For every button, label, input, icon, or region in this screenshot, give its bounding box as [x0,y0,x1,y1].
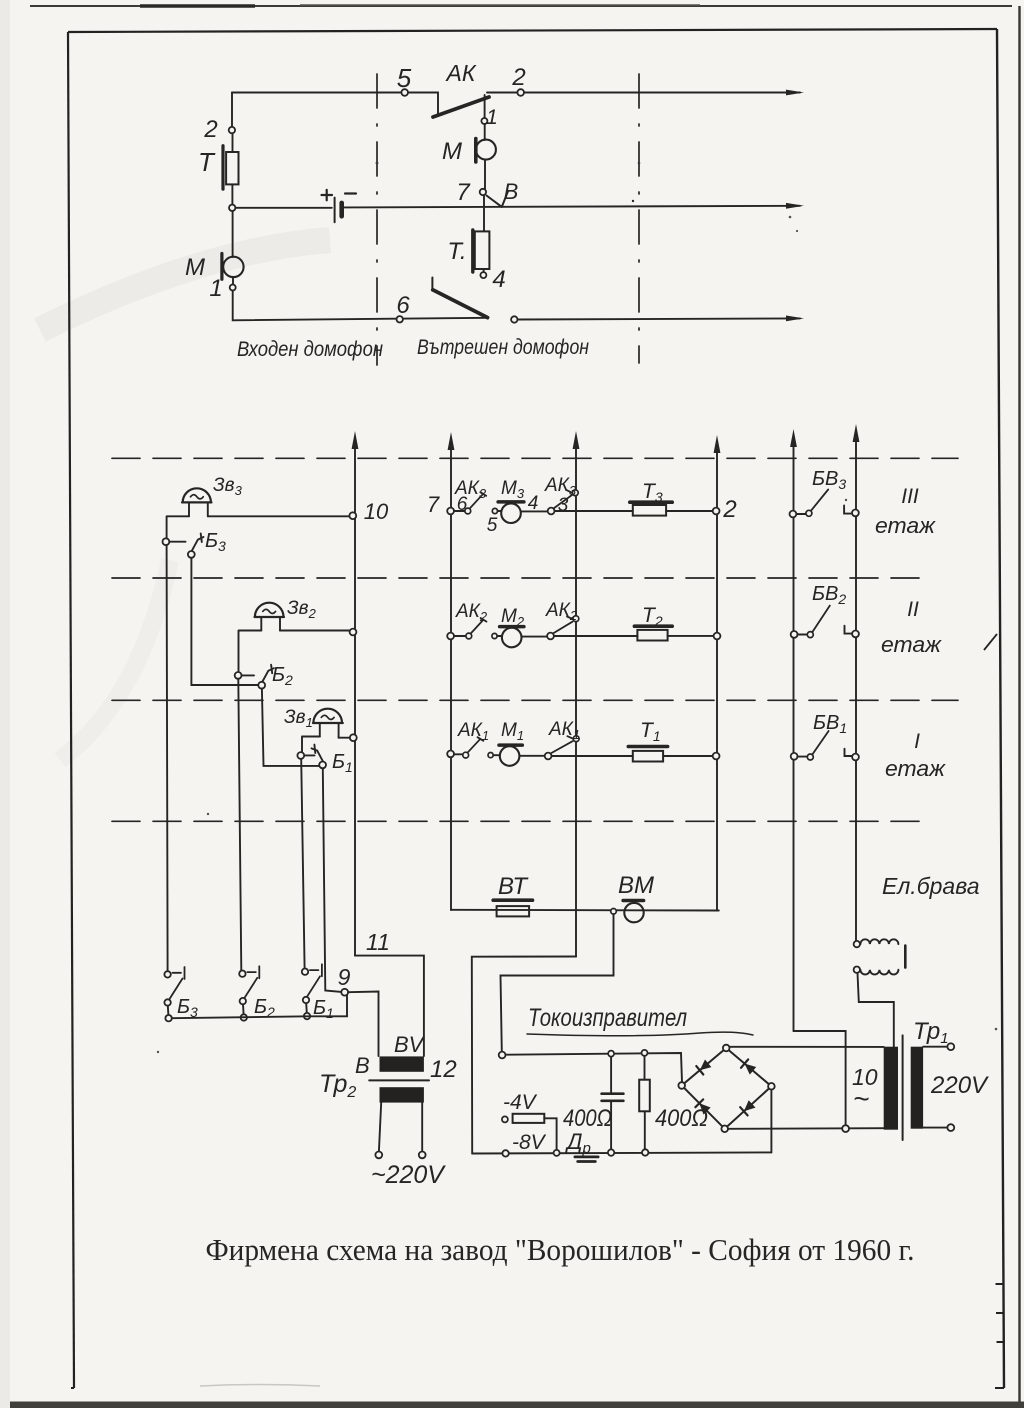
wire node to resistor T2 [554,635,638,637]
bus wire lock [855,436,857,941]
resistor T3 [633,505,666,516]
underline curve Tokoizpravitel [527,1032,753,1036]
button B1 [297,752,304,759]
border frame top line [68,29,997,32]
wire node to microphone M entry [232,211,234,257]
svg-text:-4V: -4V [503,1091,538,1114]
transformer Tr1 core [902,1035,904,1140]
arrow bus lock [853,424,860,442]
microphone M1 [488,753,493,758]
wire T3 to node 2 [666,510,713,512]
ground Dr [575,1156,598,1159]
svg-text:4: 4 [528,493,539,514]
wire node2 to resistor T entry [232,133,234,152]
dashed separator vertical left [376,74,378,365]
node VM [611,909,617,915]
transformer Tr2 winding BV [380,1056,424,1071]
svg-text:АК: АК [445,60,477,86]
arrow bus 2 [714,435,721,453]
svg-text:12: 12 [430,1056,457,1083]
arrow bus 3 [573,431,580,449]
wire top rail right with pole stub [485,93,800,118]
wire node7 to resistor T internal [483,196,485,231]
wire top rail left [232,93,438,115]
wire M2 to node row II [522,636,548,638]
switch 6 blade stub [431,278,433,290]
node bus2 row II [714,633,721,640]
microphone M2 [492,633,497,638]
wire bell Zv2 to bus 10 [280,630,351,632]
wire B3 output down and right [191,558,258,685]
diode D2 top-right [745,1064,757,1075]
svg-text:етаж: етаж [885,756,946,781]
wire middle rail left [232,207,332,209]
border frame right line [997,29,1004,1388]
wire bridge top to transformer Tr1 [730,1046,884,1048]
microphone M entry [220,254,223,280]
battery negative plate [339,203,344,216]
svg-text:4: 4 [492,266,505,293]
wire B3 line long vertical [167,545,168,971]
svg-text:ВV: ВV [394,1032,426,1057]
svg-text:III: III [901,485,919,508]
wire node1 to microphone M internal [484,124,486,140]
svg-text:I: I [914,730,920,753]
svg-text:10: 10 [364,499,389,524]
node Tr1 primary bottom [842,1125,849,1132]
scan edge top [30,5,1012,7]
wire Tr2 terminal right [421,1103,423,1152]
transformer Tr1 winding 220V [911,1047,923,1129]
capacitor C [610,1057,612,1094]
wire 11 bus10 to transformer Tr2 [355,956,424,1056]
wire bell Zv3 to node 10 [208,515,350,517]
switch AK2 blade to bus 3 [553,617,574,634]
wire left branch top [231,93,233,128]
wire buttons common rail to node 9 [172,996,347,1019]
svg-text:В: В [504,179,519,204]
svg-text:6: 6 [457,494,468,515]
svg-text:1: 1 [486,106,498,129]
wire VM node to rectifier plus rail [501,914,614,1052]
wire resistor T to node 4 [483,269,485,272]
border frame left line [68,32,74,1388]
stray ink dot [632,200,634,202]
wire B1 line long vertical [301,759,304,968]
wire middle rail right [344,206,800,208]
stray crease mark right edge [984,634,997,650]
dashed floor separator above III [112,457,958,459]
resistor VT [497,906,529,916]
door button BV2 [791,631,798,638]
node row II mid [547,633,554,640]
dashed floor separator below I [112,820,922,822]
wire resistor T entry to middle node [231,184,233,204]
door button BV3 [790,511,797,518]
switch AK3 blade to bus 3 [554,490,574,508]
arrow bus 10 [352,431,359,449]
node bus2 row I [713,753,720,760]
resistor T entry [221,146,224,189]
node row I mid [545,753,552,760]
wire microphone to node 7 [484,160,486,189]
wire Tr1 220V bottom terminal [923,1127,947,1129]
wire bell Zv1 to bus 10 [339,737,350,738]
svg-text:Входен домофон: Входен домофон [237,338,383,361]
node 6 [397,316,403,322]
wire bus 3 down to rectifier minus rail [472,957,576,1154]
svg-text:В: В [355,1053,370,1078]
button B3 lower [164,971,170,977]
svg-text:400Ω: 400Ω [655,1105,708,1132]
row II pickup contacts AK2 [447,633,454,640]
svg-text:ВМ: ВМ [618,872,654,899]
resistor T internal [471,230,474,272]
node 2 row III [713,508,720,515]
diode D4 bottom-right [744,1100,756,1111]
svg-text:9: 9 [338,964,351,990]
switch V blade [487,191,509,207]
node minus rail -8V [502,1150,508,1156]
node 5 [401,89,408,96]
node rectifier plus rail left [499,1052,506,1059]
scan edge right [1018,6,1020,1403]
wire M3 to node row III [521,510,548,512]
wire B2 output down and right [262,689,319,766]
diode D1 top-left [700,1060,712,1071]
node 4 [480,272,486,278]
wire Tr1 220V top terminal [923,1046,947,1048]
bus wire 3 [575,443,577,957]
row III pickup contacts AK3 [447,508,454,515]
svg-text:Вътрешен домофон: Вътрешен домофон [417,336,589,359]
switch 6 contact [511,316,517,322]
svg-text:Ел.брава: Ел.брава [882,873,980,899]
wire B2 line long vertical [238,679,241,971]
paper edge shadow left [0,0,10,1408]
node middle rail left [229,205,235,211]
svg-text:Т: Т [198,147,216,177]
arrow bottom rail [786,316,804,322]
node minus rail capacitor [608,1149,614,1155]
wire VT VM rail [451,909,719,912]
node bus10 row II [350,629,357,636]
door button BV1 [791,753,798,760]
microphone VM [623,899,644,903]
svg-text:М: М [442,138,462,165]
arrow middle rail [786,203,804,209]
switch AK blade [433,97,489,117]
wire Tr2 terminal left [379,1103,381,1152]
node bus10 row I [350,734,357,741]
node 2 internal [517,89,524,96]
svg-text:М: М [185,254,205,281]
switch AK1 blade to bus 3 [551,736,575,753]
svg-text:~220V: ~220V [371,1161,446,1189]
bus wire 7 [450,444,452,910]
row I pickup contacts AK1 [447,751,454,758]
battery plus sign [322,190,333,201]
battery positive plate [334,198,336,223]
inductor core bar [904,946,907,968]
svg-text:3: 3 [558,495,569,516]
faint crease shading top left [40,240,330,330]
node 1 entry [230,285,236,291]
svg-text:II: II [907,598,919,621]
wire node to resistor T1 [552,755,633,757]
wire T1 to bus 2 [663,755,713,757]
inductor electric lock [854,941,860,947]
node minus rail -4V lead [554,1150,560,1156]
node 2 entry [229,127,235,133]
button B3 [163,538,170,545]
svg-text:400Ω: 400Ω [563,1105,612,1132]
bus wire BV [793,441,795,1031]
svg-text:11: 11 [366,929,390,955]
resistor T1 [633,751,663,762]
button B1 lower [302,969,308,975]
bell Zv2 [255,603,285,617]
svg-text:етаж: етаж [875,513,936,538]
bell Zv3 [182,488,212,502]
svg-text:7: 7 [456,179,471,206]
button B2 lower [239,971,245,977]
svg-text:6: 6 [396,292,410,319]
node 1 internal [481,118,487,124]
wire lock coil to Tr1 secondary top [858,973,894,1047]
wire node 9 to transformer Tr2 [348,992,378,1057]
transformer Tr2 core [369,1079,429,1081]
node 9 [341,989,348,996]
battery minus sign [345,192,356,194]
node bridge top [723,1045,730,1052]
dashed floor separator II-I [112,699,958,701]
wire M1 to node row I [519,755,544,757]
arrow bus BV [790,429,797,447]
svg-text:-8V: -8V [512,1131,547,1154]
button B2 [235,672,242,679]
svg-text:2: 2 [722,496,736,523]
scan band bottom [0,1402,1024,1408]
node 7 [480,189,486,195]
transformer Tr2 winding 220V [380,1087,424,1102]
node bridge right [768,1083,775,1090]
wire bell Zv1 left lead [302,737,320,753]
svg-text:5: 5 [397,63,412,93]
wire bell Zv3 left lead [167,516,189,538]
bell Zv1 [313,709,343,723]
svg-text:220V: 220V [930,1072,989,1099]
bridge rectifier diamond [682,1048,772,1129]
diode D3 bottom-left [699,1103,710,1114]
svg-text:Токоизправител: Токоизправител [528,1004,687,1032]
arrow bus 7 [448,432,455,450]
tap -4V resistor [502,1116,508,1122]
svg-text:2: 2 [203,116,217,143]
wire node to resistor T3 [555,510,633,512]
microphone M3 [492,508,497,513]
frame right tick marks [71,1284,1004,1388]
svg-text:7: 7 [427,492,440,517]
svg-text:2: 2 [511,64,525,91]
wire rectifier plus rail [506,1053,683,1082]
node 10 [349,512,356,519]
svg-text:5: 5 [487,515,498,536]
resistor T2 [637,630,667,641]
svg-text:Фирмена схема на завод "Вороши: Фирмена схема на завод "Ворошилов" - Соф… [206,1232,915,1267]
wire B1 output down to node 9 [323,768,342,992]
wire T2 to bus 2 [668,635,714,637]
svg-text:етаж: етаж [881,632,942,657]
node bridge left [678,1082,685,1089]
wire bell Zv2 left lead [239,631,262,673]
node row III mid [548,508,555,515]
svg-text:~: ~ [853,1083,869,1114]
wire bottom rail right [518,318,801,319]
microphone M internal [474,139,478,163]
wire bridge bottom to transformer Tr1 [728,1127,884,1130]
dashed floor separator III-II [112,577,920,579]
bus wire 10 [354,443,356,956]
switch 6 blade [433,290,488,318]
wire bottom rail left [233,291,488,321]
dashed separator vertical right [638,74,640,363]
faint pencil mark bottom left [200,1385,320,1387]
node minus rail resistor [642,1149,648,1155]
rectifier minus rail [472,1152,771,1153]
bus wire 2 [716,447,718,911]
svg-text:ВТ: ВТ [498,873,529,900]
wire bridge right to minus rail [770,1090,772,1153]
svg-text:1: 1 [209,275,222,302]
transformer Tr1 winding 10V [884,1047,898,1130]
resistor 400ohm vertical [642,1050,648,1056]
wire bus BV to Tr1 primary bottom [794,1031,846,1125]
wire microphone M entry to node 1 [232,277,234,284]
arrow top rail right [786,90,804,96]
svg-text:Т.: Т. [447,238,466,265]
node bridge bottom [721,1126,728,1133]
